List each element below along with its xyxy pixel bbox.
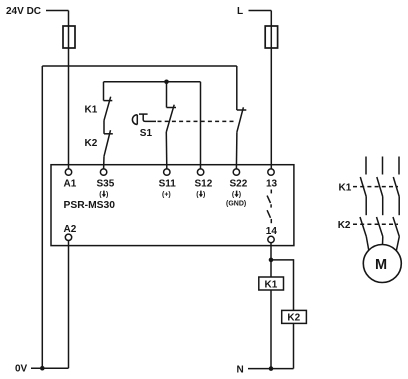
wire rail to S12 [200, 82, 202, 169]
node 0V junction [40, 366, 45, 371]
wire phase 1 middle [365, 197, 367, 216]
wire phase 2 top [382, 157, 384, 175]
wire rail to S1 contact 1 [166, 82, 168, 108]
svg-text:K1: K1 [339, 182, 352, 193]
svg-text:): ) [203, 191, 205, 198]
node feedback junction [164, 80, 169, 85]
pushbutton S1 mushroom head [132, 115, 137, 125]
wire rail to K1 contact [103, 82, 105, 101]
dashed actuation link K1 [353, 186, 398, 188]
svg-text:(GND): (GND) [226, 200, 246, 207]
svg-text:(: ( [196, 191, 199, 198]
wire phase 3 into motor [396, 237, 399, 252]
wire phase 1 top [365, 157, 367, 175]
terminal S11 [164, 169, 170, 175]
svg-text:(+): (+) [162, 191, 171, 198]
svg-text:M: M [375, 257, 387, 273]
svg-text:K1: K1 [85, 105, 98, 116]
wire 14 to coil branch [270, 243, 272, 369]
svg-text:A1: A1 [64, 179, 77, 190]
wire ground rail horizontal [42, 65, 237, 67]
wire K1 to K2 contact [103, 120, 105, 133]
svg-text:S22: S22 [230, 179, 248, 190]
terminal S22 [233, 169, 239, 175]
node N junction [269, 366, 274, 371]
svg-text:14: 14 [266, 226, 278, 237]
wire ground rail right drop to S1 contact 2 [236, 66, 238, 110]
contact K2 (NC feedback) [104, 130, 113, 156]
contact K1 phase 3 [393, 177, 399, 197]
wire S1 contact 2 to S22 [235, 132, 238, 169]
contact K2 phase 1 [360, 217, 366, 237]
fuse F2 [265, 26, 277, 48]
motor M [363, 245, 401, 283]
wire phase 1 into motor [366, 237, 369, 252]
wire phase 2 into motor [382, 237, 384, 246]
contact S1 channel 1 [166, 105, 176, 132]
wire L feed horizontal [249, 10, 272, 12]
node coil branch junction [269, 258, 274, 263]
wire N rail [248, 368, 294, 370]
coil K2 [282, 310, 307, 323]
wire K2 contact to S35 [103, 156, 105, 169]
svg-text:PSR-MS30: PSR-MS30 [64, 200, 116, 211]
pushbutton S1 stem [139, 114, 156, 121]
svg-text:(: ( [232, 191, 235, 198]
wire K2 coil to N rail [293, 323, 295, 368]
svg-text:(: ( [99, 191, 102, 198]
relay output contact 13-14 [267, 190, 271, 224]
terminal 13 [268, 169, 274, 175]
svg-text:K1: K1 [265, 279, 278, 290]
wire 24V DC feed horizontal [46, 10, 69, 12]
svg-text:): ) [239, 191, 241, 198]
contact S1 channel 2 [237, 107, 247, 132]
wire A2 to 0V rail [68, 241, 70, 369]
dashed actuation link S1 [158, 120, 236, 122]
svg-text:N: N [237, 364, 244, 375]
svg-text:S12: S12 [195, 179, 213, 190]
dashed actuation link K2 [353, 223, 398, 225]
svg-text:): ) [106, 191, 108, 198]
terminal S35 [100, 169, 106, 175]
wire feedback rail [104, 81, 201, 83]
svg-text:13: 13 [266, 179, 278, 190]
svg-text:24V DC: 24V DC [6, 6, 41, 17]
svg-text:K2: K2 [287, 313, 300, 324]
wire 0V rail [31, 367, 69, 369]
wire branch to K2 coil [271, 260, 294, 311]
contact K2 phase 2 [377, 217, 383, 237]
svg-text:0V: 0V [15, 364, 28, 375]
svg-text:S35: S35 [97, 179, 115, 190]
coil K1 [259, 277, 284, 290]
relay box PSR-MS30 [51, 165, 294, 246]
wire L vertical to terminal 13 [270, 11, 272, 170]
contact K2 phase 3 [393, 217, 399, 237]
svg-text:S1: S1 [140, 128, 153, 139]
contact K1 (NC feedback) [104, 97, 113, 121]
wire ground rail left drop to 0V [41, 66, 43, 368]
svg-text:A2: A2 [64, 224, 77, 235]
wire S1 contact 1 to S11 [165, 132, 168, 169]
wire phase 2 middle [382, 197, 384, 216]
contact K1 phase 2 [377, 177, 383, 197]
svg-text:S11: S11 [159, 179, 177, 190]
wire phase 3 middle [398, 197, 400, 216]
svg-text:K2: K2 [85, 138, 98, 149]
fuse F1 [63, 26, 75, 48]
svg-text:K2: K2 [338, 220, 351, 231]
svg-text:L: L [237, 6, 243, 17]
terminal A1 [65, 169, 71, 175]
wire phase 3 top [398, 157, 400, 175]
contact K1 phase 1 [360, 177, 366, 197]
wire 24V DC vertical to A1 [68, 11, 70, 169]
terminal S12 [197, 169, 203, 175]
